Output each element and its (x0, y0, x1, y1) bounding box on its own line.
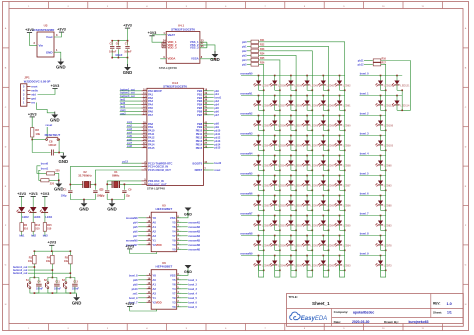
row net bowl_0 (360, 72, 403, 76)
svg-text:bowl_2: bowl_2 (188, 283, 197, 286)
svg-text:PB10: PB10 (196, 129, 203, 133)
ground below X2 (79, 200, 89, 211)
svg-text:bowl_3: bowl_3 (360, 132, 369, 136)
svg-text:bowl_5: bowl_5 (188, 297, 197, 300)
svg-text:LED50: LED50 (262, 224, 270, 227)
svg-text:10k: 10k (64, 260, 69, 263)
LED matrix row10 col4 (302, 255, 319, 277)
LED matrix row8 col4 (302, 215, 319, 231)
LED matrix row2 col4 (302, 95, 319, 111)
svg-text:Company:: Company: (334, 310, 349, 314)
svg-text:Vout: Vout (46, 35, 52, 39)
svg-text:zas2: zas2 (120, 112, 126, 115)
svg-text:LED56: LED56 (294, 144, 302, 147)
wire +5V to U3 Vin (30, 33, 38, 46)
svg-text:Drawn By:: Drawn By: (384, 320, 399, 324)
svg-text:pb4: pb4 (133, 221, 138, 224)
svg-text:10k: 10k (28, 260, 33, 263)
LED matrix row6 col5 (318, 175, 335, 191)
svg-text:LED108: LED108 (384, 124, 394, 127)
svg-text:A3: A3 (152, 291, 156, 295)
net label reset (46, 123, 53, 137)
svg-text:pb0: pb0 (242, 41, 247, 44)
resistor network R21-R26 matrix columns (242, 39, 265, 66)
svg-text:+3V3: +3V3 (47, 241, 56, 245)
svg-text:Y8: Y8 (152, 216, 156, 220)
LED matrix row7 col1 (253, 195, 270, 211)
svg-text:LED57: LED57 (310, 144, 318, 147)
svg-text:PC14-OSC32_IN: PC14-OSC32_IN (148, 165, 168, 169)
svg-text:C5: C5 (110, 41, 114, 45)
power flag +3V3 decoupling (123, 24, 132, 29)
svg-text:C11: C11 (55, 280, 60, 283)
LED matrix row1 col2 (269, 75, 286, 91)
LED matrix row5 col1 (253, 155, 270, 171)
svg-text:A1: A1 (152, 282, 156, 286)
LED matrix row7 col4 (302, 195, 319, 211)
svg-text:LED60: LED60 (310, 84, 318, 87)
LED second matrix row6 col1 (375, 175, 392, 191)
svg-text:mosweN1: mosweN1 (188, 221, 200, 224)
svg-text:PB6: PB6 (197, 110, 203, 114)
svg-text:LED50: LED50 (294, 264, 302, 267)
svg-text:LED83: LED83 (384, 224, 392, 227)
svg-text:A3: A3 (152, 234, 156, 238)
svg-text:LED4: LED4 (45, 215, 52, 219)
svg-text:PA4: PA4 (148, 103, 153, 107)
svg-text:LED62: LED62 (343, 84, 351, 87)
svg-text:+3V3: +3V3 (125, 244, 134, 248)
LED matrix row1 col5 (318, 75, 335, 91)
svg-text:Y6: Y6 (172, 282, 176, 286)
svg-text:LED54: LED54 (262, 144, 270, 147)
svg-text:100nF: 100nF (72, 288, 79, 291)
svg-text:PA10: PA10 (148, 129, 155, 133)
svg-text:100p: 100p (61, 194, 67, 197)
svg-text:8MHz: 8MHz (112, 173, 120, 177)
ground below U3 (56, 59, 66, 70)
svg-text:bowl_9: bowl_9 (360, 252, 369, 256)
svg-text:LED78: LED78 (384, 244, 392, 247)
svg-text:pb10: pb10 (132, 288, 138, 291)
wires VSS to ground (207, 45, 216, 60)
LED matrix row10 col6 (334, 255, 351, 277)
svg-text:LED52: LED52 (278, 204, 286, 207)
svg-text:mosweN4: mosweN4 (240, 152, 253, 156)
svg-text:NRST: NRST (195, 168, 203, 172)
svg-text:pb9: pb9 (133, 283, 138, 286)
svg-text:C7: C7 (125, 41, 129, 45)
svg-text:PA7: PA7 (148, 113, 153, 117)
svg-text:bowl_8: bowl_8 (129, 274, 138, 277)
svg-text:LED93: LED93 (384, 184, 392, 187)
svg-text:GND: GND (59, 159, 69, 164)
net button3_out (13, 272, 71, 275)
svg-text:GND: GND (56, 65, 66, 70)
svg-text:PA14: PA14 (148, 142, 155, 146)
svg-text:bowl_1: bowl_1 (360, 92, 369, 96)
LED matrix row10 col5 (318, 255, 335, 277)
microcontroller U4.2 STM32F103C8T6 (141, 81, 209, 191)
svg-text:XC6206P332MR: XC6206P332MR (32, 28, 55, 32)
svg-text:PC13-TAMPER-RTC: PC13-TAMPER-RTC (148, 161, 172, 165)
LED matrix row3 col2 (269, 115, 286, 131)
row net bowl_9 (360, 252, 386, 256)
svg-text:LED48: LED48 (262, 264, 270, 267)
svg-text:bowl_0: bowl_0 (360, 72, 369, 76)
LED matrix row3 col4 (302, 115, 319, 131)
svg-text:VSS_3: VSS_3 (190, 46, 199, 50)
svg-text:32.768kHz: 32.768kHz (78, 173, 92, 177)
crystal X2 32.768kHz with C1 C2 (61, 167, 142, 203)
LED matrix row2 col6 (334, 95, 351, 111)
svg-text:PA12: PA12 (148, 136, 155, 140)
svg-text:Y5: Y5 (172, 220, 176, 224)
LED second matrix row10 col1 (375, 255, 392, 277)
svg-text:LED53: LED53 (310, 224, 318, 227)
svg-text:Y5: Y5 (172, 278, 176, 282)
svg-text:pb1: pb1 (242, 45, 247, 48)
svg-text:mosweN5: mosweN5 (240, 172, 253, 176)
svg-text:LED88: LED88 (384, 204, 392, 207)
svg-text:Y3: Y3 (172, 243, 176, 247)
svg-text:Vin: Vin (39, 44, 44, 48)
svg-text:bowl_9: bowl_9 (129, 297, 138, 300)
svg-text:PB13: PB13 (196, 139, 203, 143)
row net mosweN7 (240, 212, 344, 216)
LED matrix row1 col1 (253, 75, 270, 91)
svg-text:LED54: LED54 (343, 244, 351, 247)
svg-text:LED59: LED59 (294, 84, 302, 87)
svg-text:bowl_5: bowl_5 (360, 172, 369, 176)
svg-text:+3V3: +3V3 (25, 28, 34, 32)
svg-text:mosweN9: mosweN9 (126, 239, 138, 242)
svg-text:pb7: pb7 (133, 235, 138, 238)
svg-text:LED55: LED55 (262, 124, 270, 127)
svg-text:Y4: Y4 (172, 287, 176, 291)
LED matrix row2 col2 (269, 95, 286, 111)
svg-text:LED50: LED50 (278, 244, 286, 247)
LED matrix row7 col2 (269, 195, 286, 211)
svg-text:bowl_4: bowl_4 (360, 152, 369, 156)
LED second matrix row1 col2 (392, 75, 410, 91)
net button1_out (13, 266, 35, 269)
svg-text:A2: A2 (152, 287, 156, 291)
svg-text:LED54: LED54 (278, 164, 286, 167)
svg-text:LED73: LED73 (384, 264, 392, 267)
svg-text:mosweN0: mosweN0 (188, 248, 200, 251)
LED matrix row2 col3 (286, 95, 303, 111)
svg-text:LED55: LED55 (310, 184, 318, 187)
svg-text:bowl_6: bowl_6 (188, 301, 197, 304)
wire U3 Vout to +3V3 (54, 32, 62, 37)
row net mosweN2 (240, 112, 344, 116)
svg-text:Y0: Y0 (172, 305, 176, 309)
svg-text:gnd: gnd (31, 97, 36, 101)
svg-text:mosweN1: mosweN1 (240, 92, 253, 96)
svg-text:LED53: LED53 (278, 184, 286, 187)
svg-text:VDD: VDD (156, 301, 162, 305)
svg-text:LED49: LED49 (262, 244, 270, 247)
svg-text:mosweN4: mosweN4 (188, 235, 200, 238)
LED matrix row7 col6 (334, 195, 351, 211)
svg-text:pb5: pb5 (133, 226, 138, 229)
svg-text:PC15-OSC32_OUT: PC15-OSC32_OUT (148, 168, 171, 172)
svg-text:boot0: boot0 (41, 162, 49, 166)
LED matrix row9 col6 (334, 235, 351, 251)
svg-text:1/1: 1/1 (447, 311, 452, 315)
svg-text:LED103: LED103 (384, 144, 394, 147)
svg-text:LED57: LED57 (294, 124, 302, 127)
capacitor C8 100nF (32, 140, 63, 156)
svg-text:pc13: pc13 (122, 161, 128, 164)
svg-text:A0: A0 (152, 220, 156, 224)
row net mosweN3 (240, 132, 344, 136)
svg-text:1.0: 1.0 (447, 302, 452, 306)
wire buttons to ground (34, 292, 77, 297)
LED second matrix row2 col2 (392, 95, 410, 111)
svg-text:PA8: PA8 (148, 122, 153, 126)
LED second matrix row4 col1 (375, 135, 393, 151)
svg-text:LED54: LED54 (294, 184, 302, 187)
button S2 with capacitor (44, 277, 62, 293)
svg-text:STM32F103C8T6: STM32F103C8T6 (163, 84, 187, 88)
svg-text:LED98: LED98 (384, 164, 392, 167)
LED2 indicator with resistor (16, 192, 29, 238)
svg-text:12p: 12p (100, 194, 105, 197)
resistors R10 R11 boot pulldown (37, 162, 60, 186)
svg-text:PA5: PA5 (148, 106, 153, 110)
resistor R2 10k (31, 117, 41, 140)
svg-text:PB5: PB5 (197, 106, 203, 110)
svg-text:LED53: LED53 (262, 164, 270, 167)
svg-text:LED52: LED52 (327, 264, 335, 267)
LED matrix row4 col3 (286, 135, 303, 151)
LED matrix row7 col5 (318, 195, 335, 211)
LED second matrix row5 col1 (375, 155, 392, 171)
wire JP1 pin3 to +3V3 (38, 88, 56, 94)
LED matrix row4 col2 (269, 135, 286, 151)
svg-text:mosweN7: mosweN7 (240, 212, 253, 216)
svg-text:220: 220 (55, 170, 60, 173)
wire JP1 pin1 to ground (37, 103, 55, 115)
resistor R4 button pullup (46, 251, 54, 277)
svg-text:pb12: pb12 (358, 63, 364, 66)
svg-text:pb8: pb8 (133, 279, 138, 282)
svg-text:LED52: LED52 (262, 184, 270, 187)
svg-text:+3V3: +3V3 (17, 192, 26, 196)
svg-text:PB4: PB4 (197, 103, 203, 107)
svg-text:Y9: Y9 (172, 296, 176, 300)
svg-text:LED56: LED56 (343, 204, 351, 207)
svg-text:LED51: LED51 (294, 244, 302, 247)
svg-text:LED114: LED114 (400, 104, 410, 107)
svg-text:LED53: LED53 (327, 244, 335, 247)
svg-text:+3V3: +3V3 (29, 192, 38, 196)
svg-text:LED57: LED57 (262, 84, 270, 87)
svg-text:LED52: LED52 (294, 224, 302, 227)
svg-text:LED51: LED51 (262, 204, 270, 207)
row net mosweN5 (240, 172, 344, 176)
power rail +3V3 buttons (34, 241, 72, 252)
voltage regulator U3 XC6206P332MR (32, 24, 55, 58)
svg-text:LED59: LED59 (327, 124, 335, 127)
LED matrix row4 col5 (318, 135, 335, 151)
svg-text:GND: GND (79, 206, 89, 211)
ground below X1 (107, 200, 117, 211)
LED matrix row6 col1 (253, 175, 270, 191)
svg-text:led1: led1 (19, 234, 25, 237)
svg-text:STM-LQFP48: STM-LQFP48 (147, 186, 165, 190)
svg-text:100nF: 100nF (54, 288, 61, 291)
svg-text:+3V3: +3V3 (125, 302, 134, 306)
svg-text:LED60: LED60 (327, 104, 335, 107)
wires R16 R17 to columns (381, 61, 411, 111)
row net bowl_2 (360, 112, 386, 116)
svg-text:GND: GND (184, 212, 192, 216)
svg-text:boot1: boot1 (41, 166, 49, 170)
svg-text:LED61: LED61 (327, 84, 335, 87)
wire U3 GND to ground (54, 48, 61, 60)
svg-text:220: 220 (50, 183, 55, 186)
svg-text:pb7: pb7 (214, 114, 219, 117)
resistor R3 button pullup (28, 251, 36, 277)
svg-text:pb6: pb6 (133, 230, 138, 233)
LED matrix row5 col2 (269, 155, 286, 171)
svg-text:LED55: LED55 (278, 144, 286, 147)
svg-text:2020-03-30: 2020-03-30 (352, 320, 369, 324)
svg-text:bowl_3: bowl_3 (188, 288, 197, 291)
LED matrix row5 col5 (318, 155, 335, 171)
svg-text:mosweN6: mosweN6 (240, 192, 253, 196)
svg-text:LED57: LED57 (343, 184, 351, 187)
svg-text:Date:: Date: (334, 320, 342, 324)
svg-text:mosweN9: mosweN9 (240, 252, 253, 256)
ground below C8 (59, 153, 69, 164)
resistor R5 button pullup (64, 251, 72, 277)
svg-text:TITLE:: TITLE: (289, 295, 298, 299)
LED matrix row1 col3 (286, 75, 303, 91)
LED matrix row5 col3 (286, 155, 303, 171)
svg-text:mosweN8: mosweN8 (240, 232, 253, 236)
LED second matrix row9 col1 (375, 235, 392, 251)
svg-text:100nF: 100nF (48, 143, 56, 147)
svg-text:LED54: LED54 (327, 224, 335, 227)
svg-text:EasyEDA: EasyEDA (301, 316, 327, 322)
LED matrix row9 col4 (302, 235, 319, 251)
LED3 indicator with resistor (28, 192, 41, 238)
svg-text:RESETBUT: RESETBUT (45, 133, 61, 137)
svg-text:nedio: nedio (31, 89, 38, 93)
wires and net labels U4.2 left port A (120, 88, 142, 163)
wires resistor network to matrix columns (259, 42, 345, 91)
svg-text:GND: GND (210, 57, 220, 62)
svg-text:pb5: pb5 (242, 63, 247, 66)
row net bowl_1 (360, 92, 403, 96)
svg-text:mosweN6: mosweN6 (188, 244, 200, 247)
power flag +3V3 at VBAT (148, 31, 162, 42)
svg-text:+3V3: +3V3 (123, 24, 132, 28)
title block (287, 294, 464, 327)
row net bowl_5 (360, 172, 386, 176)
net labels U4.2 right port B (209, 90, 222, 172)
LED matrix row4 col1 (253, 135, 270, 151)
svg-text:reset: reset (46, 123, 53, 127)
capacitors C5 C6 C7 100nF (109, 28, 132, 67)
svg-text:Y7: Y7 (172, 291, 176, 295)
svg-text:pb3: pb3 (242, 54, 247, 57)
svg-text:G: G (5, 265, 7, 267)
svg-text:LED58: LED58 (294, 104, 302, 107)
row net bowl_6 (360, 192, 386, 196)
svg-text:res: res (31, 101, 35, 105)
net button2_out (13, 269, 53, 272)
svg-text:VSS: VSS (170, 273, 176, 277)
power flag +5V (25, 28, 34, 33)
svg-text:VDDA: VDDA (168, 57, 176, 61)
svg-text:bowl_8: bowl_8 (360, 232, 369, 236)
ground below JP1 (50, 112, 60, 123)
svg-text:reset: reset (31, 85, 37, 89)
reset button RESETBUT (31, 133, 60, 140)
LED matrix row3 col3 (286, 115, 303, 131)
svg-text:PA0-WKUP: PA0-WKUP (148, 89, 162, 93)
svg-text:VSS: VSS (170, 216, 176, 220)
svg-text:Y8: Y8 (152, 273, 156, 277)
LED matrix row2 col5 (318, 95, 335, 111)
svg-text:LED55: LED55 (343, 224, 351, 227)
LED matrix row2 col1 (253, 95, 270, 111)
LED matrix row6 col4 (302, 175, 319, 191)
svg-text:apokalibzdec: apokalibzdec (353, 311, 374, 315)
svg-text:100nF: 100nF (36, 288, 43, 291)
svg-text:bowl_4: bowl_4 (188, 292, 197, 295)
svg-text:GND: GND (107, 206, 117, 211)
svg-text:C6: C6 (116, 41, 120, 45)
svg-text:PB2: PB2 (197, 96, 203, 100)
svg-text:PB12: PB12 (196, 136, 203, 140)
svg-text:LED57: LED57 (327, 164, 335, 167)
LED second matrix row7 col1 (375, 195, 392, 211)
svg-text:LED61: LED61 (343, 104, 351, 107)
svg-text:LED55: LED55 (327, 204, 335, 207)
svg-text:PB15: PB15 (196, 146, 203, 150)
LED matrix row6 col6 (334, 175, 351, 191)
svg-text:zst8: zst8 (127, 145, 132, 148)
svg-text:pb11: pb11 (358, 60, 364, 63)
svg-text:LED55: LED55 (294, 164, 302, 167)
svg-text:LED121: LED121 (400, 84, 410, 87)
connector JP1 WJ2DDGVC-5.08-5P (21, 75, 51, 106)
svg-text:Y7: Y7 (172, 234, 176, 238)
svg-text:mosweN0: mosweN0 (240, 72, 253, 76)
LED second matrix row3 col1 (375, 115, 393, 131)
svg-text:LED2: LED2 (22, 215, 29, 219)
LED matrix row3 col6 (334, 115, 351, 131)
svg-text:510: 510 (47, 227, 52, 230)
svg-text:510: 510 (24, 227, 29, 230)
EasyEDA logo (290, 312, 327, 322)
svg-text:GND: GND (72, 301, 82, 306)
ground below buttons (72, 294, 82, 305)
LED matrix row3 col5 (318, 115, 335, 131)
svg-text:mosweN3: mosweN3 (240, 132, 253, 136)
svg-text:bowl_2: bowl_2 (360, 112, 369, 116)
svg-text:PB0: PB0 (197, 89, 203, 93)
svg-text:Y0: Y0 (172, 247, 176, 251)
svg-text:mosweN2: mosweN2 (240, 112, 253, 116)
svg-text:A0: A0 (152, 278, 156, 282)
